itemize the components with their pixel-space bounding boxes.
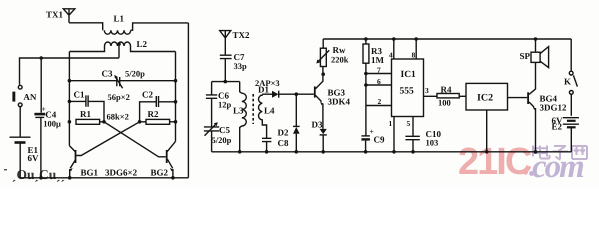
svg-text:6V: 6V (28, 153, 40, 163)
node C8 ground (265, 150, 269, 154)
svg-text:7: 7 (377, 66, 381, 75)
antenna TX1 (63, 9, 75, 23)
diode D1 (262, 91, 296, 98)
diode D3 (320, 129, 327, 152)
svg-text:IC2: IC2 (477, 93, 493, 104)
node antenna tank (224, 80, 228, 84)
svg-text:SP: SP (520, 51, 531, 61)
node pin6 (364, 83, 368, 87)
wire button to battery (19, 107, 21, 178)
transformer core (252, 94, 254, 124)
diode D2 (293, 94, 300, 152)
wire L1 to right rail (131, 23, 189, 30)
svg-text:R4: R4 (441, 85, 452, 95)
wire tank top (212, 81, 240, 83)
resistor R3 (363, 39, 369, 74)
wire 555 timing node (365, 74, 367, 136)
node C4 top (40, 56, 43, 59)
svg-text:E2: E2 (552, 122, 563, 132)
antenna TX2 (220, 31, 231, 55)
node right rail R2 (174, 120, 178, 124)
transistor BG4 (527, 62, 536, 151)
svg-text:12p: 12p (218, 100, 232, 110)
svg-text:56p×2: 56p×2 (108, 92, 130, 102)
svg-text:R1: R1 (80, 109, 91, 119)
transistor BG3 (314, 67, 324, 129)
resistor R2 (141, 119, 176, 124)
svg-text:C5: C5 (219, 125, 230, 135)
svg-text:TX1: TX1 (46, 10, 64, 20)
rheostat Rw (316, 39, 329, 67)
node detector (295, 92, 299, 96)
wire IC2 to BG4 (508, 97, 528, 99)
capacitor C8 (262, 138, 271, 152)
svg-text:TX2: TX2 (233, 30, 251, 40)
node D3 ground (321, 150, 325, 154)
node C4 ground (39, 176, 43, 180)
svg-text:5/20p: 5/20p (125, 69, 145, 79)
svg-text:3: 3 (425, 86, 429, 95)
svg-text:555: 555 (400, 87, 415, 97)
node pin4 top (392, 37, 396, 41)
node right rail C3 (174, 79, 178, 83)
node BG2 emitter (171, 176, 175, 180)
wire pin3 (424, 95, 438, 97)
capacitor C4 (34, 58, 45, 178)
wire L2 left lead (69, 46, 104, 52)
watermark 21IC red (458, 141, 532, 183)
svg-text:L4: L4 (264, 106, 275, 116)
svg-text:L1: L1 (114, 14, 125, 24)
watermark gray bottom-left (4, 167, 65, 182)
watermark .com lavender (529, 149, 584, 185)
node left rail C3 (68, 79, 72, 83)
capacitor C10 (405, 117, 419, 152)
svg-text:D3: D3 (312, 120, 323, 130)
svg-text:D1: D1 (258, 85, 269, 95)
node pin7 (364, 72, 368, 76)
svg-text:220k: 220k (331, 55, 349, 65)
wire pin1 (393, 117, 395, 152)
wire pin7 (366, 73, 392, 75)
node BG4 emitter ground (534, 150, 538, 154)
node left rail R1 (68, 120, 72, 124)
pushbutton AN (12, 85, 22, 106)
wire cross coupling R2 to BG1 (76, 122, 139, 156)
svg-text:103: 103 (426, 138, 439, 148)
svg-text:L2: L2 (137, 39, 148, 49)
switch K (569, 39, 577, 116)
svg-text:4: 4 (389, 51, 393, 60)
IC U1 555 (392, 59, 424, 117)
capacitor C1 (69, 95, 104, 121)
wire pin6 (366, 84, 392, 86)
svg-text:C8: C8 (278, 138, 289, 148)
wire L2 right lead (131, 46, 176, 52)
inductor L4 (258, 94, 266, 138)
capacitor C6 (206, 82, 217, 127)
wire IC2 ground (486, 110, 488, 152)
svg-text:8: 8 (412, 51, 416, 60)
svg-text:5: 5 (407, 119, 411, 128)
watermark chinese dianziwang (532, 146, 587, 160)
svg-text:C3: C3 (102, 69, 113, 79)
svg-text:BG1: BG1 (81, 168, 99, 178)
node SP top (534, 37, 538, 41)
node L3 ground (238, 150, 242, 154)
svg-text:3DG6×2: 3DG6×2 (105, 168, 138, 178)
svg-text:C1: C1 (74, 90, 85, 100)
svg-text:100μ: 100μ (43, 119, 61, 129)
trimmer capacitor C5 (204, 122, 219, 152)
svg-text:1: 1 (389, 119, 393, 128)
svg-text:AN: AN (23, 92, 36, 102)
inductor L1 (104, 30, 130, 34)
wire pin2 (366, 105, 392, 107)
svg-text:68k×2: 68k×2 (107, 112, 129, 122)
trimmer capacitor C3 (69, 75, 175, 88)
wire receiver ground bus (212, 151, 572, 153)
node D2 ground (295, 150, 299, 154)
inductor L3 (240, 82, 247, 152)
svg-text:2: 2 (378, 97, 382, 106)
wire transmitter ground bus (20, 177, 189, 179)
transistor BG1 (69, 146, 76, 178)
svg-text:5/20p: 5/20p (212, 135, 232, 145)
node R1 right (102, 120, 106, 124)
wire antenna to L1 (69, 23, 103, 30)
node BG3 collector (321, 72, 325, 76)
node R3 top (364, 37, 368, 41)
wire detector to BG3 (296, 93, 314, 95)
speaker SP (531, 39, 549, 68)
capacitor C2 (140, 96, 176, 122)
node BG1 emitter (68, 176, 72, 180)
svg-text:D2: D2 (278, 128, 289, 138)
wire pin4 (393, 39, 395, 59)
capacitor C9 (361, 127, 373, 152)
node left rail C1 (68, 100, 72, 104)
svg-text:3DG12: 3DG12 (540, 103, 568, 113)
node L2 center tap (117, 42, 121, 58)
node pin1 ground (392, 150, 396, 154)
node IC2 ground (485, 150, 489, 154)
svg-text:Rw: Rw (333, 45, 346, 55)
svg-text:1M: 1M (371, 55, 385, 65)
wire top supply (323, 38, 571, 40)
svg-text:IC1: IC1 (401, 70, 417, 80)
svg-text:21IC: 21IC (458, 141, 532, 183)
node C10 ground (411, 150, 415, 154)
svg-text:C2: C2 (142, 90, 153, 100)
svg-text:L3: L3 (233, 106, 244, 116)
svg-text:33p: 33p (234, 61, 248, 71)
battery E1 (10, 137, 31, 142)
node right rail C2 (174, 100, 178, 104)
wire cross coupling R1 to BG2 (104, 122, 166, 157)
svg-text:BG2: BG2 (151, 168, 169, 178)
battery E2 (563, 118, 579, 152)
IC U2 (466, 83, 508, 110)
node C9 ground (364, 150, 368, 154)
wire right rail (175, 52, 177, 142)
svg-text:R2: R2 (148, 109, 159, 119)
svg-text:K: K (564, 77, 571, 87)
capacitor C7 (220, 55, 232, 81)
resistor R1 (76, 119, 104, 124)
inductor L2 (105, 42, 131, 46)
transistor BG2 (166, 141, 176, 177)
wire supply line to button AN (20, 58, 120, 85)
svg-text:C9: C9 (374, 135, 385, 145)
resistor R4 (437, 94, 466, 98)
wire pin8 (415, 39, 417, 59)
node pin8 top (414, 37, 418, 41)
wire left rail (68, 52, 70, 146)
node R2 left (138, 120, 142, 124)
svg-text:6: 6 (377, 77, 381, 86)
svg-text:100: 100 (438, 98, 451, 108)
svg-text:3DK4: 3DK4 (328, 97, 351, 107)
wire transmitter right edge (187, 23, 189, 178)
